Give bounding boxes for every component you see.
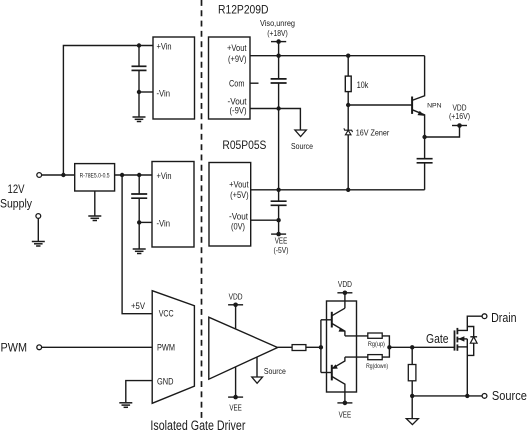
svg-text:Rg(down): Rg(down) bbox=[366, 363, 388, 370]
MOSFET M1 bbox=[455, 316, 483, 396]
svg-text:VCC: VCC bbox=[159, 309, 174, 319]
wire 10k bottom to base node bbox=[347, 92, 349, 105]
capacitor C3 plates bbox=[417, 159, 433, 163]
svg-text:R12P209D: R12P209D bbox=[218, 3, 269, 17]
wire base node to NPN base bbox=[348, 104, 412, 106]
junction source rail / pulldown bbox=[410, 394, 414, 398]
wire U2 -Vout (0V) bbox=[251, 219, 279, 221]
svg-text:-Vin: -Vin bbox=[157, 218, 171, 228]
svg-text:16V Zener: 16V Zener bbox=[356, 127, 390, 137]
junction Rg join node bbox=[387, 345, 391, 349]
wire base node down to zener bbox=[347, 105, 349, 130]
svg-text:(+18V): (+18V) bbox=[267, 29, 288, 38]
wire VEE from triangle bbox=[235, 367, 237, 397]
svg-text:PWM: PWM bbox=[1, 341, 28, 355]
gate driver U3 input side (trapezoid) bbox=[152, 291, 194, 404]
svg-text:-Vin: -Vin bbox=[157, 89, 171, 99]
wire R2 to buffer input node bbox=[306, 346, 321, 348]
DC-DC converter U1 input-side box bbox=[153, 37, 195, 119]
wire pulldown lower bbox=[411, 381, 413, 396]
DC-DC converter U2 output-side box bbox=[209, 163, 251, 247]
svg-text:VDD: VDD bbox=[338, 280, 352, 289]
transistor Q1 NPN bbox=[412, 56, 425, 137]
junction emitter node bbox=[422, 135, 426, 139]
resistor R3 pulldown body bbox=[408, 365, 416, 381]
wire 10k branch upper bbox=[347, 56, 349, 76]
ground symbol below C4 bbox=[133, 249, 146, 254]
wire triangle source pin bbox=[256, 357, 258, 377]
junction MOSFET source / rail bbox=[465, 394, 469, 398]
svg-text:(0V): (0V) bbox=[231, 221, 245, 231]
svg-text:R05P05S: R05P05S bbox=[222, 138, 266, 152]
resistor Rg(down) body bbox=[368, 355, 382, 360]
wire Q3 emitter to Rg(down) bbox=[345, 356, 368, 358]
svg-text:(-5V): (-5V) bbox=[274, 246, 289, 255]
wire pulldown branch upper bbox=[411, 347, 413, 364]
svg-text:Isolated Gate Driver: Isolated Gate Driver bbox=[150, 418, 245, 433]
svg-text:(+9V): (+9V) bbox=[228, 54, 247, 64]
svg-text:Source: Source bbox=[291, 141, 313, 151]
resistor Rg(up) body bbox=[368, 333, 382, 338]
wire PWM to driver bbox=[42, 346, 153, 348]
junction buffer input node bbox=[319, 345, 323, 349]
wire Rg(down) to gate node bbox=[382, 347, 389, 357]
terminal Source output bbox=[482, 394, 487, 399]
transistor Q2 NPN (pull-up) bbox=[332, 308, 346, 336]
wire -9V to Source arrow bbox=[250, 109, 300, 131]
svg-text:GND: GND bbox=[157, 376, 174, 386]
DC-DC converter U2 input-side box bbox=[152, 162, 194, 248]
wire pulldown to source arrow bbox=[411, 396, 413, 419]
wire emitter to VDD terminal bbox=[425, 126, 460, 138]
junction base node bbox=[346, 103, 350, 107]
wire regulator ground bbox=[94, 191, 96, 216]
terminal 12V supply plus bbox=[37, 173, 42, 178]
wire gate node to MOSFET gate bbox=[389, 346, 454, 348]
ground symbol below driver bbox=[119, 403, 132, 408]
wire C4 lower to ground bbox=[138, 198, 140, 248]
wire input cap branch upper bbox=[138, 46, 140, 67]
body diode D2 bbox=[467, 327, 473, 337]
wire C5 lower to 0V wire bbox=[278, 205, 280, 220]
ground symbol supply minus bbox=[32, 242, 45, 247]
junction gate / pulldown bbox=[410, 345, 414, 349]
junction source rail / zener bbox=[346, 188, 350, 192]
wire output source rail bbox=[412, 395, 482, 397]
wire input cap branch lower to ground bbox=[138, 70, 140, 116]
wire base bus bbox=[321, 320, 332, 373]
MOSFET gate bar bbox=[454, 330, 456, 350]
junction +9V rail / 10k bbox=[346, 54, 350, 58]
wire VEE below push-pull bbox=[344, 392, 346, 403]
wire C3 lower to source rail bbox=[424, 163, 426, 190]
transistor Q3 PNP (pull-down) bbox=[332, 357, 345, 392]
wire U2 +Vout cap branch bbox=[278, 190, 280, 201]
terminal VDD (push-pull) bbox=[337, 291, 352, 296]
terminal VDD (triangle) bbox=[228, 303, 243, 308]
DC-DC converter U1 output-side box bbox=[209, 37, 251, 119]
svg-text:Source: Source bbox=[264, 366, 286, 376]
junction U2 -Vin / C4 bbox=[137, 220, 141, 224]
svg-text:+5V: +5V bbox=[131, 301, 145, 311]
source arrow symbol (triangle) bbox=[252, 377, 263, 383]
MOSFET source vertical bbox=[466, 339, 468, 396]
junction C4 tap bbox=[137, 173, 141, 177]
wire VDD cap branch upper bbox=[424, 137, 426, 159]
svg-text:VEE: VEE bbox=[339, 410, 352, 419]
wire +5V / source rail bbox=[251, 189, 425, 191]
isolation barrier dashed line bbox=[201, 0, 203, 418]
regulator R-78E5.0-0.5 box bbox=[75, 164, 115, 191]
svg-text:VEE: VEE bbox=[229, 403, 242, 412]
svg-text:(-9V): (-9V) bbox=[230, 106, 247, 116]
svg-text:(+5V): (+5V) bbox=[230, 190, 249, 200]
svg-text:+Vin: +Vin bbox=[157, 42, 172, 52]
svg-text:VDD: VDD bbox=[229, 292, 243, 301]
svg-text:-Vout: -Vout bbox=[229, 212, 248, 222]
svg-text:PWM: PWM bbox=[157, 342, 175, 352]
junction -9V / stack bbox=[276, 106, 280, 110]
svg-text:Com: Com bbox=[229, 79, 245, 89]
svg-text:Rg(up): Rg(up) bbox=[368, 341, 385, 348]
junction 12V rail tap bbox=[61, 173, 65, 177]
push-pull buffer box bbox=[327, 301, 357, 392]
MOSFET drain stub bbox=[457, 316, 482, 330]
wire zener bottom to source rail bbox=[347, 135, 349, 190]
wire GND pin to ground bbox=[126, 381, 152, 403]
MOSFET body stub with arrow bbox=[457, 338, 467, 340]
resistor R2 series body bbox=[292, 345, 306, 351]
terminal VEE (push-pull) bbox=[337, 401, 352, 406]
wire C2 lower to -9V wire bbox=[278, 83, 280, 109]
wire +18V cap branch upper bbox=[278, 56, 280, 79]
capacitor C1 plates bbox=[132, 66, 147, 70]
svg-text:R-78E5.0-0.5: R-78E5.0-0.5 bbox=[80, 172, 110, 179]
terminal VEE (-5V) bbox=[271, 232, 286, 237]
junction +5V logic tap bbox=[120, 173, 124, 177]
svg-text:NPN: NPN bbox=[427, 102, 442, 109]
svg-text:+Vout: +Vout bbox=[227, 43, 247, 53]
junction source rail / stack bbox=[276, 188, 280, 192]
capacitor C2 plates bbox=[271, 79, 287, 83]
svg-text:+Vin: +Vin bbox=[157, 171, 172, 181]
wire supply minus to ground bbox=[37, 218, 39, 241]
svg-text:Gate: Gate bbox=[426, 331, 449, 346]
wire Rg(up) to gate node bbox=[382, 336, 389, 347]
source arrow symbol (top) bbox=[295, 130, 306, 137]
svg-text:Viso,unreg: Viso,unreg bbox=[260, 19, 295, 28]
junction 0V / VEE bbox=[276, 218, 280, 222]
wire +9V rail bbox=[250, 55, 425, 57]
capacitor C5 plates bbox=[271, 201, 287, 205]
ground symbol below regulator bbox=[88, 216, 101, 221]
resistor 10k body bbox=[345, 76, 351, 92]
gate driver U3 output side (triangle) bbox=[209, 317, 278, 379]
terminal PWM input bbox=[37, 345, 42, 350]
wire 12V rail up to U1 +Vin bbox=[63, 46, 153, 176]
wire triangle output bbox=[278, 346, 293, 348]
svg-text:+Vout: +Vout bbox=[229, 180, 249, 190]
svg-text:12V: 12V bbox=[8, 182, 26, 196]
wire VDD to Q2 collector bbox=[344, 293, 346, 308]
svg-text:10k: 10k bbox=[357, 80, 369, 90]
terminal VEE (triangle) bbox=[228, 395, 243, 400]
wire Q2 emitter to Rg(up) bbox=[345, 335, 368, 337]
wire regulator out to U2 +Vin bbox=[115, 174, 152, 176]
wire C4 branch upper bbox=[138, 175, 140, 194]
svg-text:(+16V): (+16V) bbox=[449, 112, 470, 121]
wire supply to regulator bbox=[42, 174, 75, 176]
wire VDD into triangle bbox=[235, 305, 237, 329]
MOSFET source stub bbox=[457, 346, 467, 348]
wire Viso terminal to +9V rail bbox=[278, 42, 280, 56]
svg-text:Drain: Drain bbox=[491, 310, 516, 325]
terminal 12V supply minus bbox=[36, 214, 41, 219]
wire Com stub bbox=[250, 82, 259, 84]
svg-text:Source: Source bbox=[492, 388, 527, 403]
wire +5V down to VCC bbox=[122, 175, 152, 314]
terminal VDD (+16V) bbox=[452, 123, 467, 128]
zener diode D1 16V bbox=[344, 128, 353, 135]
wire 0V down to VEE terminal bbox=[278, 220, 280, 234]
terminal Drain output bbox=[482, 314, 487, 319]
source arrow symbol (bottom) bbox=[406, 419, 418, 425]
ground symbol below C1 bbox=[133, 117, 146, 122]
wire U2 -Vin bbox=[139, 221, 152, 223]
MOSFET channel segments bbox=[456, 328, 458, 334]
junction U1 +Vin / C1 bbox=[137, 43, 141, 47]
junction +9V rail / Viso cap bbox=[276, 54, 280, 58]
terminal Viso,unreg (+18V) bbox=[271, 39, 286, 44]
wire stack -9V down to +5V rail bbox=[278, 109, 280, 190]
wire U1 -Vin bbox=[139, 91, 153, 93]
capacitor C4 plates bbox=[131, 194, 147, 198]
svg-text:VEE: VEE bbox=[275, 237, 288, 246]
svg-text:Supply: Supply bbox=[0, 197, 33, 211]
junction U1 -Vin / C1 bbox=[137, 90, 141, 94]
